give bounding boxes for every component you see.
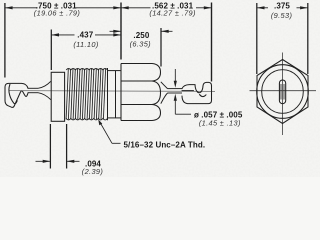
extension line C (right end of part) xyxy=(211,3,213,82)
flange xyxy=(51,72,64,121)
bell taper left xyxy=(38,81,51,88)
threads 5/16-32 xyxy=(66,68,107,120)
leader + label thread spec xyxy=(98,119,120,143)
hex body (side view) xyxy=(121,64,161,121)
neck right xyxy=(168,88,183,90)
dimension .562 xyxy=(121,6,212,9)
dimension .250 xyxy=(160,28,162,67)
dimension .437 xyxy=(50,30,52,71)
hook terminal left xyxy=(5,83,28,107)
hook terminal right xyxy=(182,82,212,103)
end view: hex nut xyxy=(257,60,308,124)
end view: outer circle (thread major dia) xyxy=(257,65,309,119)
taper to right neck xyxy=(161,82,182,104)
extension lines .375 xyxy=(256,3,258,74)
end view: centerlines xyxy=(250,90,317,92)
extension line B (hex left face) xyxy=(120,3,122,60)
dimension .750 xyxy=(5,6,121,9)
end view: hook slot seen end-on xyxy=(279,80,285,104)
centerline of side view xyxy=(9,90,215,93)
dimension .094 flange thickness xyxy=(49,124,51,169)
dimension .375 xyxy=(257,6,308,9)
thread runout xyxy=(108,68,122,120)
extension line A (left end of part) xyxy=(4,3,6,78)
neck left xyxy=(28,81,51,99)
dimension diameter .057 neck xyxy=(174,69,191,114)
end view: inner circle (thread minor dia) xyxy=(262,70,304,114)
